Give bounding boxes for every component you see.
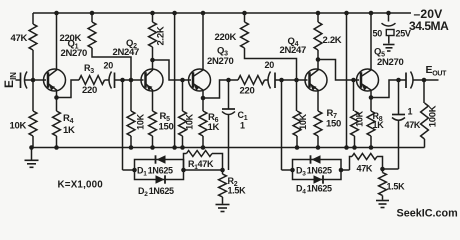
dot bus R4	[54, 145, 59, 150]
label 10K Q5 rotated	[355, 110, 365, 126]
diode D4 1N625	[314, 175, 324, 184]
diode D3 1N625	[311, 155, 321, 164]
resistor R2 1.5K	[219, 170, 227, 204]
node Q3 base bias	[180, 78, 185, 83]
capacitor 1 output feedback	[392, 80, 405, 169]
svg-text:1: 1	[408, 107, 413, 117]
svg-text:20: 20	[265, 60, 275, 70]
dot Q1 collector rail	[54, 11, 59, 16]
label 20 stage3	[265, 60, 275, 70]
label 47K right	[405, 120, 421, 130]
label Q2	[126, 38, 137, 50]
svg-text:220: 220	[240, 86, 255, 97]
svg-text:2N247: 2N247	[280, 45, 307, 56]
wire Q4 base to box2	[281, 80, 283, 170]
label R2	[228, 176, 238, 188]
transistor Q4	[305, 60, 327, 92]
label 1K R6	[208, 122, 220, 133]
label R5	[160, 111, 171, 123]
wire Q4 base	[275, 79, 308, 81]
resistor R1 47K	[184, 151, 223, 171]
label D1 1N625	[137, 166, 173, 178]
label 1.5K output	[387, 182, 406, 192]
label R1 47K	[188, 159, 214, 171]
svg-text:1K: 1K	[63, 125, 75, 136]
svg-text:2N270: 2N270	[61, 48, 88, 59]
resistor 10K Q2	[127, 80, 135, 148]
wire Q1 emitter to R3	[57, 80, 80, 98]
node Q3 emitter	[201, 96, 206, 101]
label 1.5K R2	[228, 186, 247, 196]
resistor R6 1K	[199, 98, 207, 148]
node Q5 emitter	[369, 95, 374, 100]
label E_OUT	[426, 64, 448, 78]
svg-text:SeekIC.com: SeekIC.com	[397, 208, 458, 220]
label 10K Q4 rotated	[298, 113, 308, 129]
resistor 47K bias	[29, 13, 37, 80]
wire Q3 emitter to 220	[203, 80, 238, 98]
label 2N247 Q4	[280, 45, 307, 56]
resistor 1.5K output	[379, 169, 387, 200]
dot bus 10K Q3	[180, 145, 185, 150]
resistor 2.2K Q4 load	[314, 11, 322, 60]
node Q4 base bias	[294, 78, 299, 83]
resistor 220K Q4 bias	[241, 11, 297, 80]
node output cap tap	[396, 78, 401, 83]
resistor 47K feedback2	[350, 154, 383, 171]
label Q3	[217, 46, 228, 58]
label 1K R4	[63, 125, 75, 136]
label 2.2K Q2 rotated	[156, 26, 167, 45]
label 10K	[10, 121, 27, 132]
dot Q3 collector rail	[201, 11, 206, 16]
capacitor 20 stage1	[105, 72, 115, 89]
resistor R5 150	[149, 91, 157, 148]
node Q4 collector	[316, 57, 321, 62]
capacitor C1	[222, 80, 235, 170]
resistor R7 150	[314, 91, 322, 148]
label K=X1000	[58, 180, 104, 191]
diode D1 1N625	[156, 155, 166, 164]
diode box2	[282, 160, 342, 180]
label 10K Q3 rotated	[185, 113, 195, 129]
node Q2 collector	[150, 58, 155, 63]
ground main	[25, 148, 39, 168]
node Q2 base feedback	[120, 78, 125, 83]
svg-text:1: 1	[240, 121, 245, 131]
svg-text:10K: 10K	[136, 113, 146, 129]
transistor Q5	[357, 13, 379, 98]
label 1 cap	[408, 107, 413, 117]
label 1 C1	[240, 121, 245, 131]
label 1K R8	[373, 120, 385, 130]
resistor 10K Q5	[351, 80, 359, 148]
svg-text:10K: 10K	[298, 113, 308, 129]
label Q4	[288, 36, 299, 48]
label 220 stage3	[240, 86, 255, 97]
node Q5 base bias	[351, 78, 356, 83]
label C1	[238, 110, 248, 122]
dot bus R8	[369, 145, 374, 150]
svg-text:34.5MA: 34.5MA	[409, 19, 449, 33]
node E_OUT	[422, 78, 427, 83]
label 220K Q4	[215, 32, 237, 43]
svg-text:1.5K: 1.5K	[228, 186, 247, 196]
label 100K rotated	[428, 105, 439, 127]
label 25V	[396, 29, 411, 39]
diode D2 1N625	[156, 175, 166, 184]
dot bus 10K Q5	[352, 145, 357, 150]
node R2 top	[220, 168, 225, 173]
label R3	[84, 63, 94, 75]
node Q1 emitter	[54, 95, 59, 100]
node box1 exit	[181, 168, 222, 173]
resistor 10K input	[29, 80, 37, 148]
label 20 stage1	[104, 61, 114, 71]
node C1 tap	[226, 78, 231, 83]
label 2N247 Q2	[113, 47, 140, 58]
node Q4 base feedback	[279, 78, 284, 83]
svg-text:20: 20	[104, 61, 114, 71]
dot bus R5	[150, 145, 155, 150]
wire Q2 collector to Q3 base	[153, 60, 192, 80]
svg-text:2.2K: 2.2K	[156, 26, 167, 45]
wire rail to bus 2	[344, 11, 349, 150]
svg-text:2N270: 2N270	[377, 57, 404, 68]
svg-text:25V: 25V	[396, 29, 411, 39]
wire Q2 base to box1	[122, 80, 124, 170]
dot bus R7	[316, 145, 321, 150]
label R4	[63, 113, 74, 125]
label 2N270 Q3	[207, 56, 234, 67]
svg-text:150: 150	[326, 119, 341, 130]
label D2 1N625	[138, 186, 174, 198]
watermark SeekIC.com	[397, 208, 458, 220]
ground R2	[216, 205, 230, 212]
power rail -20V	[33, 12, 411, 14]
label R6	[208, 112, 219, 124]
label 10K Q2 rotated	[136, 113, 146, 129]
wire Q5 emitter to output	[371, 80, 406, 98]
capacitor 50uF 25V	[382, 11, 396, 44]
svg-text:10K: 10K	[355, 110, 365, 126]
svg-text:1K: 1K	[373, 120, 385, 130]
label 47K	[11, 33, 28, 44]
wire Q4 collector to Q5 base	[318, 60, 359, 81]
ground bus	[32, 147, 425, 149]
dot bus 10K Q2	[129, 145, 134, 150]
resistor 220K Q2 bias	[88, 11, 131, 80]
transistor Q2	[141, 60, 163, 91]
label 220 R3	[82, 85, 97, 96]
svg-text:150: 150	[159, 122, 174, 133]
capacitor C-out	[406, 72, 439, 89]
label 2N270 Q5	[377, 57, 404, 68]
dot Q5 collector rail	[369, 11, 374, 16]
svg-text:10K: 10K	[10, 121, 27, 132]
svg-text:K=X1,000: K=X1,000	[58, 180, 104, 191]
svg-text:47K: 47K	[405, 120, 421, 130]
label R7	[327, 108, 338, 120]
resistor 10K Q4	[293, 80, 301, 148]
capacitor 20 stage3	[265, 72, 276, 89]
label D3 1N625	[296, 166, 332, 178]
label 2N270 Q1	[61, 48, 88, 59]
svg-text:2.2K: 2.2K	[323, 35, 342, 46]
svg-text:220K: 220K	[60, 33, 82, 44]
label 50	[373, 29, 383, 39]
svg-text:220K: 220K	[215, 32, 237, 43]
label R8	[373, 111, 383, 123]
svg-text:2N270: 2N270	[207, 56, 234, 67]
label Q1	[68, 39, 79, 51]
dot bus R6	[201, 145, 206, 150]
svg-text:1.5K: 1.5K	[387, 182, 406, 192]
ground 1.5K	[376, 201, 389, 208]
label 34.5MA	[409, 19, 449, 33]
svg-text:1K: 1K	[208, 122, 220, 133]
svg-text:2N247: 2N247	[113, 47, 140, 58]
label D4 1N625	[296, 184, 332, 196]
resistor 2.2K Q2 load	[149, 11, 157, 60]
svg-text:47K: 47K	[11, 33, 28, 44]
label 150 R7	[326, 119, 341, 130]
label 150 R5	[159, 122, 174, 133]
dot bus 10K Q4	[295, 145, 300, 150]
svg-text:220: 220	[82, 85, 97, 96]
dot bus 10K input	[29, 145, 34, 150]
node box2 exit	[339, 168, 350, 173]
capacitor C-in	[21, 72, 32, 89]
node 1.5K top	[380, 167, 398, 172]
svg-text:10K: 10K	[185, 113, 195, 129]
resistor 10K Q3	[179, 80, 187, 148]
input terminal E_IN	[2, 72, 21, 88]
node input/base Q1	[31, 78, 46, 83]
resistor 220 stage3	[238, 76, 265, 85]
wire rail to bus 1	[172, 11, 177, 150]
resistor R3 220	[79, 76, 104, 85]
transistor Q3	[189, 13, 211, 98]
label -20V	[414, 7, 444, 21]
resistor 100K	[421, 80, 429, 148]
label Q5	[374, 47, 385, 59]
svg-text:50: 50	[373, 29, 383, 39]
diode box1	[123, 160, 184, 180]
svg-text:47K: 47K	[357, 164, 373, 174]
label 47K feedback2	[357, 164, 373, 174]
svg-text:100K: 100K	[428, 105, 439, 127]
label 220K Q2	[60, 33, 82, 44]
transistor Q1	[44, 13, 66, 98]
wire Q2 base	[115, 79, 144, 81]
ground 50uF	[383, 45, 395, 52]
resistor R8 1K	[367, 98, 375, 148]
node Q2 base bias	[129, 78, 134, 83]
resistor R4 1K	[53, 98, 61, 148]
label 2.2K Q4	[323, 35, 342, 46]
